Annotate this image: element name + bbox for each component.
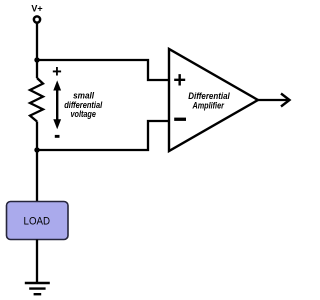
wire top junction to amp + input bbox=[37, 60, 169, 80]
svg-text:V+: V+ bbox=[31, 4, 42, 14]
svg-text:+: + bbox=[173, 68, 186, 93]
junction node bottom bbox=[34, 147, 39, 152]
V+ terminal circle bbox=[34, 16, 40, 22]
svg-text:LOAD: LOAD bbox=[24, 216, 51, 228]
svg-text:voltage: voltage bbox=[70, 109, 96, 119]
op-amp U1 Differential Amplifier triangle bbox=[169, 49, 258, 151]
differential voltage arrow - label bbox=[55, 135, 60, 138]
resistor R1 bbox=[30, 78, 43, 122]
wire amp output bbox=[258, 99, 288, 101]
LOAD box bbox=[7, 202, 69, 240]
differential voltage double arrow bbox=[56, 88, 58, 122]
svg-text:Differential: Differential bbox=[188, 91, 230, 101]
svg-text:+: + bbox=[52, 63, 62, 81]
wire LOAD to ground bbox=[36, 240, 38, 284]
ground bbox=[25, 282, 50, 284]
output arrowhead bbox=[281, 94, 290, 107]
op-amp - input label bbox=[174, 118, 186, 121]
wire V+ terminal to resistor top bbox=[36, 24, 38, 79]
junction node top bbox=[34, 57, 39, 62]
wire resistor bottom to LOAD bbox=[36, 122, 38, 203]
wire bottom junction to amp - input bbox=[37, 121, 169, 150]
svg-text:Amplifier: Amplifier bbox=[192, 101, 225, 111]
